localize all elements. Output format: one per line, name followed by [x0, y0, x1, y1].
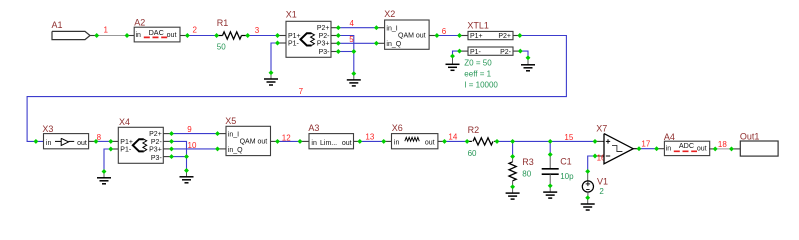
svg-text:Out1: Out1 [740, 131, 760, 141]
svg-text:7: 7 [299, 87, 304, 96]
svg-text:A1: A1 [52, 20, 63, 30]
svg-text:Lim...: Lim... [320, 140, 337, 147]
svg-text:12: 12 [282, 134, 291, 143]
svg-text:10: 10 [188, 141, 197, 150]
svg-text:14: 14 [448, 132, 457, 141]
svg-text:X7: X7 [596, 123, 607, 133]
svg-text:10p: 10p [560, 172, 574, 181]
svg-text:50: 50 [217, 43, 226, 52]
svg-text:9: 9 [187, 125, 192, 134]
svg-text:out: out [167, 32, 177, 39]
svg-text:R1: R1 [217, 18, 229, 28]
svg-text:in: in [46, 140, 52, 147]
svg-text:ADC: ADC [679, 141, 694, 150]
svg-text:XTL1: XTL1 [467, 20, 489, 30]
svg-text:13: 13 [365, 132, 374, 141]
svg-text:out: out [342, 140, 352, 147]
svg-text:in: in [136, 32, 142, 39]
svg-text:P3+: P3+ [149, 147, 162, 154]
svg-text:in_Q: in_Q [228, 147, 243, 154]
svg-text:P2-: P2- [319, 33, 331, 40]
svg-text:DAC: DAC [149, 28, 164, 37]
svg-text:17: 17 [641, 139, 650, 148]
svg-text:6: 6 [442, 27, 447, 36]
svg-text:P2-: P2- [500, 49, 512, 56]
svg-text:C1: C1 [560, 157, 572, 167]
svg-text:P1+: P1+ [288, 33, 301, 40]
svg-text:I = 10000: I = 10000 [464, 80, 498, 89]
svg-text:3: 3 [255, 26, 260, 35]
svg-text:out: out [77, 140, 87, 147]
svg-text:X1: X1 [286, 10, 297, 20]
svg-text:X3: X3 [42, 124, 53, 134]
svg-text:P1-: P1- [120, 146, 132, 153]
svg-text:V1: V1 [597, 176, 608, 186]
svg-text:out: out [425, 139, 435, 146]
svg-text:P1+: P1+ [120, 139, 133, 146]
svg-text:18: 18 [718, 140, 727, 149]
svg-text:P2+: P2+ [498, 33, 511, 40]
svg-text:60: 60 [468, 149, 477, 158]
svg-text:in: in [666, 145, 672, 152]
svg-text:P3-: P3- [151, 155, 163, 162]
svg-text:2: 2 [599, 187, 604, 196]
svg-text:A2: A2 [134, 17, 145, 27]
svg-text:P2-: P2- [151, 139, 163, 146]
svg-text:15: 15 [564, 133, 573, 142]
svg-text:4: 4 [350, 19, 355, 28]
svg-text:P1-: P1- [470, 49, 482, 56]
svg-text:in_I: in_I [386, 25, 397, 32]
svg-text:2: 2 [193, 26, 198, 35]
svg-text:Z0 = 50: Z0 = 50 [464, 58, 492, 67]
svg-text:A4: A4 [664, 132, 675, 142]
svg-text:X6: X6 [392, 123, 403, 133]
svg-text:A3: A3 [308, 123, 319, 133]
svg-text:QAM out: QAM out [398, 33, 426, 40]
svg-text:P2+: P2+ [317, 25, 330, 32]
svg-text:in_Q: in_Q [386, 41, 401, 48]
svg-text:X2: X2 [384, 9, 395, 19]
svg-text:out: out [697, 145, 707, 152]
svg-text:X4: X4 [119, 117, 130, 127]
svg-text:R2: R2 [468, 125, 480, 135]
svg-text:P1-: P1- [288, 40, 300, 47]
svg-text:QAM out: QAM out [240, 139, 268, 146]
svg-text:in: in [394, 139, 400, 146]
svg-text:P3-: P3- [319, 49, 331, 56]
svg-text:80: 80 [522, 169, 531, 178]
svg-text:1: 1 [104, 26, 109, 35]
svg-text:in: in [311, 140, 317, 147]
svg-text:P2+: P2+ [149, 131, 162, 138]
svg-text:R3: R3 [522, 157, 534, 167]
svg-text:X5: X5 [225, 116, 236, 126]
svg-text:5: 5 [349, 35, 354, 44]
svg-text:in_I: in_I [228, 131, 239, 138]
svg-text:P1+: P1+ [470, 33, 483, 40]
svg-text:eeff = 1: eeff = 1 [464, 69, 491, 78]
svg-text:P3+: P3+ [317, 41, 330, 48]
